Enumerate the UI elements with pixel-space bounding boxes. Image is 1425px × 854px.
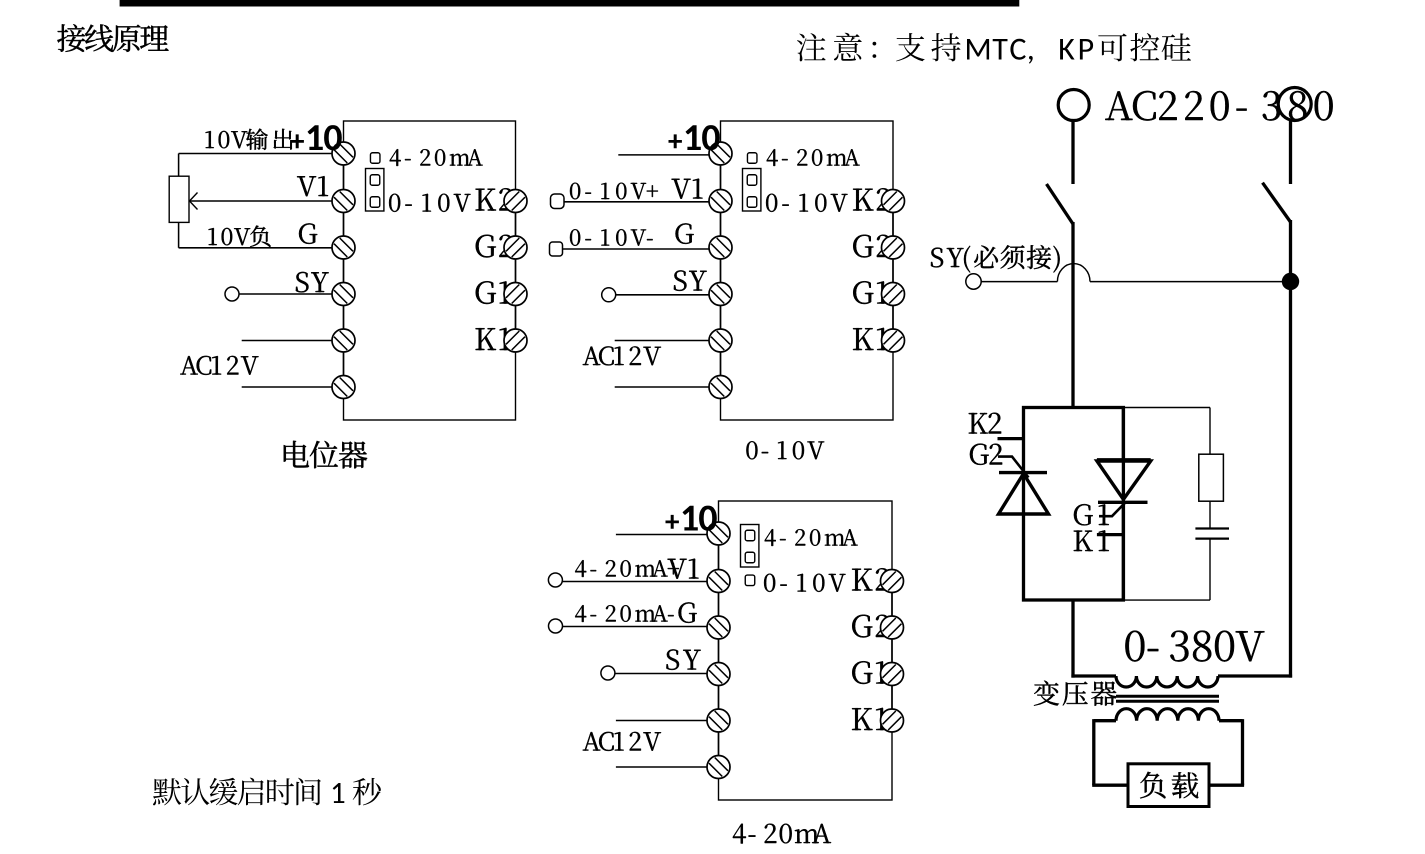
label 4-20mA+ xyxy=(575,560,679,577)
module U2 terminal V1 xyxy=(709,190,732,213)
module U1 (pot input) pin label K1 xyxy=(476,328,511,350)
terminal stub G (U2) xyxy=(550,242,563,256)
terminal stub SY (U1) xyxy=(225,287,239,301)
wire SCR box to transformer xyxy=(1071,600,1074,678)
module U3 (4-20mA input) right edge wire segment G1 xyxy=(891,686,893,710)
wire Q1 cathode to box bottom xyxy=(1122,502,1125,600)
module U3 (4-20mA input) jumper pin 0-10V xyxy=(745,575,755,586)
wire snubber bottom xyxy=(1123,599,1210,601)
module U3 left edge wire segment 1 xyxy=(718,545,720,570)
module U3 (4-20mA input) pin label K2 xyxy=(852,568,889,590)
wire secondary left step xyxy=(1094,719,1116,722)
label +10 (U2) xyxy=(669,125,720,150)
potentiometer RP1 bottom lead xyxy=(178,222,180,247)
module U2 left edge wire segment 2 xyxy=(720,213,722,237)
module U3 left edge wire segment 3 xyxy=(718,639,720,663)
module U3 left edge wire segment 2 xyxy=(718,593,720,617)
thyristor Q1 gate lead xyxy=(1099,502,1126,516)
module U2 (0-10V input) terminal K1 xyxy=(882,329,905,352)
caption 电位器 xyxy=(284,441,368,469)
wire load left xyxy=(1092,784,1128,787)
wire Q1 anode from box top xyxy=(1122,408,1125,460)
label AC220-380 xyxy=(1105,91,1332,121)
label 4-20mA- xyxy=(575,605,673,622)
module U2 (0-10V input) jumper block (0-10V position) xyxy=(743,169,761,212)
module U1 (pot input) jumper pin 4-20mA xyxy=(370,153,380,164)
wire L2 drop to switch xyxy=(1289,121,1292,185)
module U1 (pot input) label 0-10V xyxy=(389,194,470,212)
wire U3 G xyxy=(563,626,709,628)
wire resistor to capacitor xyxy=(1209,501,1211,528)
module U2 (0-10V input) terminal K2 xyxy=(882,190,905,213)
potentiometer RP1 top lead xyxy=(178,154,180,177)
module U3 (4-20mA input) outline xyxy=(719,501,893,800)
module U1 (pot input) pin label G2 xyxy=(476,235,513,258)
wire L1 drop to switch xyxy=(1071,121,1074,185)
module U3 (4-20mA input) label 0-10V xyxy=(764,574,845,592)
module U1 left edge wire segment 4 xyxy=(343,306,345,330)
thyristor Q2 triangle (conducts up) xyxy=(999,474,1049,514)
label AC12V (U2) xyxy=(583,346,661,365)
wire SY stub to hop xyxy=(981,281,1057,283)
label 0-10V- xyxy=(570,229,653,246)
switch S2 blade xyxy=(1263,183,1291,222)
wire U1 AC12V a xyxy=(242,340,334,342)
module U2 (0-10V input) label 4-20mA xyxy=(767,149,860,166)
module U2 left edge wire segment 3 xyxy=(720,259,722,283)
module U2 (0-10V input) jumper pin lower xyxy=(747,197,757,208)
wire U1 V1 (wiper) xyxy=(190,200,334,202)
wire U3 SY xyxy=(615,673,709,675)
module U3 (4-20mA input) label 4-20mA xyxy=(765,529,858,546)
module U1 terminal G xyxy=(332,236,355,259)
capacitor C1 bottom plate xyxy=(1195,537,1229,539)
terminal stub V1 (U2) xyxy=(551,194,565,209)
module U2 (0-10V input) label 0-10V xyxy=(766,194,847,212)
switch S1 blade xyxy=(1047,184,1074,224)
module U2 terminal AC12Va xyxy=(709,329,732,352)
junction dot on L2 xyxy=(1282,273,1298,289)
module U1 (pot input) right edge wire segment K2 xyxy=(515,213,517,237)
label SY (U3) xyxy=(666,649,700,670)
module U3 terminal SY xyxy=(707,663,730,686)
pin label K1 (SCR) xyxy=(1074,530,1109,551)
wire L1 switch to SCR box xyxy=(1071,222,1074,408)
module U3 (4-20mA input) jumper pin upper xyxy=(745,530,755,541)
wire U1 SY xyxy=(239,293,334,295)
module U3 (4-20mA input) pin label G1 xyxy=(852,661,887,684)
module U3 (4-20mA input) jumper pin mid xyxy=(745,552,755,563)
label G (U1) xyxy=(299,223,317,244)
module U1 (pot input) terminal G2 xyxy=(504,236,527,259)
label 变压器 xyxy=(1034,681,1117,706)
note 默认缓启时间 1 秒 xyxy=(153,778,381,806)
pin label K2 (SCR) xyxy=(969,413,1001,434)
thyristor Q1 triangle (conducts down) xyxy=(1097,461,1151,499)
SCR module box xyxy=(1024,408,1124,601)
AC source terminal L2 xyxy=(1278,88,1311,121)
module U1 (pot input) terminal K1 xyxy=(504,329,527,352)
module U3 left edge wire segment 5 xyxy=(718,732,720,756)
label 负载 xyxy=(1140,772,1198,799)
module U2 (0-10V input) outline xyxy=(721,121,894,420)
module U1 left edge wire segment 5 xyxy=(343,352,345,376)
caption 0-10V xyxy=(746,441,824,459)
wire secondary right step xyxy=(1219,719,1243,722)
terminal stub SY (U2) xyxy=(602,288,616,302)
wire U2 AC12V a xyxy=(615,340,711,342)
label 10V负 cjk xyxy=(250,226,271,247)
module U1 (pot input) outline xyxy=(344,121,516,420)
label SY (U2) xyxy=(674,270,707,291)
module U3 terminal G xyxy=(707,616,730,639)
label AC12V (U1) xyxy=(180,356,258,375)
module U2 (0-10V input) terminal G1 xyxy=(882,283,905,306)
label V1 (U1) xyxy=(297,176,328,196)
module U3 (4-20mA input) terminal K2 xyxy=(881,570,904,593)
label SY (U1) xyxy=(296,272,329,293)
module U1 terminal V1 xyxy=(332,190,355,213)
label +10 (U3) xyxy=(666,506,717,531)
module U1 (pot input) right edge wire segment G1 xyxy=(515,306,517,330)
resistor R1 body xyxy=(1199,454,1224,501)
module U2 (0-10V input) pin label K2 xyxy=(853,188,890,210)
terminal stub SY (power) xyxy=(966,274,981,289)
module U3 (4-20mA input) pin label K1 xyxy=(852,708,887,730)
wire U2 SY xyxy=(616,294,711,296)
note 注意：支持 MTC，KP 可控硅 xyxy=(797,33,1191,64)
wire U1 AC12V b xyxy=(242,386,334,388)
terminal stub G (U3) xyxy=(549,619,563,633)
module U2 (0-10V input) pin label K1 xyxy=(853,328,888,350)
label G (U3) xyxy=(679,602,697,623)
label 10V输出 xyxy=(206,131,248,148)
thyristor Q2 gate lead xyxy=(998,457,1029,478)
wire U1 +10 output xyxy=(179,153,334,155)
module U1 (pot input) jumper pin lower xyxy=(370,197,380,208)
module U2 terminal +10 xyxy=(709,142,732,165)
label SY(必须接) xyxy=(931,245,1060,273)
wire U3 +10 xyxy=(616,534,709,536)
wire U2 +10 xyxy=(618,154,710,156)
module U1 (pot input) jumper block (0-10V position) xyxy=(366,169,384,212)
module U1 (pot input) right edge wire segment G2 xyxy=(515,259,517,283)
wire snubber top xyxy=(1123,407,1210,409)
module U2 (0-10V input) pin label G1 xyxy=(853,281,888,304)
module U1 terminal +10 xyxy=(332,142,355,165)
module U1 (pot input) terminal G1 xyxy=(504,283,527,306)
module U2 (0-10V input) terminal G2 xyxy=(882,236,905,259)
K2 stub line xyxy=(998,437,1024,440)
terminal stub V1 (U3) xyxy=(548,573,562,587)
potentiometer RP1 body xyxy=(169,176,189,222)
module U2 terminal AC12Vb xyxy=(709,376,732,399)
module U2 terminal SY xyxy=(709,283,732,306)
thyristor Q1 anode bar xyxy=(1097,458,1151,461)
wire U2 G xyxy=(563,248,711,250)
module U3 terminal AC12Va xyxy=(707,709,730,732)
wire U2 V1 xyxy=(564,201,711,203)
wire transformer primary left xyxy=(1071,674,1116,677)
module U3 (4-20mA input) terminal G2 xyxy=(881,616,904,639)
capacitor C1 top plate xyxy=(1195,527,1229,529)
transformer TR1 primary winding xyxy=(1116,676,1218,687)
module U2 (0-10V input) jumper pin upper xyxy=(747,175,757,186)
pin label G2 (SCR) xyxy=(970,444,1002,465)
arrowhead on V1 wiper wire xyxy=(190,193,198,210)
title 接线原理 xyxy=(57,24,168,52)
module U3 (4-20mA input) right edge wire segment K2 xyxy=(891,593,893,617)
label AC12V (U3) xyxy=(583,732,661,751)
module U1 (pot input) label 4-20mA xyxy=(390,149,483,166)
wire U2 AC12V b xyxy=(615,386,711,388)
label 0-10V+ xyxy=(570,183,658,200)
module U1 terminal AC12Va xyxy=(332,329,355,352)
module U1 left edge wire segment 3 xyxy=(343,259,345,283)
module U2 (0-10V input) jumper pin 4-20mA xyxy=(747,153,757,164)
transformer TR1 core line 1 xyxy=(1116,695,1219,698)
label G (U2) xyxy=(676,223,694,244)
wire snubber drop to resistor xyxy=(1209,408,1211,455)
wire L2 down to transformer xyxy=(1289,220,1292,678)
wire transformer primary right xyxy=(1218,674,1292,677)
module U2 left edge wire segment 4 xyxy=(720,306,722,330)
wire U3 V1 xyxy=(562,581,708,583)
module U3 left edge wire segment 4 xyxy=(718,686,720,710)
module U1 terminal SY xyxy=(332,283,355,306)
wire SY hop to L2 junction xyxy=(1090,281,1291,283)
label +10 (U1) xyxy=(291,125,342,150)
module U2 left edge wire segment 1 xyxy=(720,165,722,190)
module U1 (pot input) terminal K2 xyxy=(504,190,527,213)
thyristor Q1 cathode bar xyxy=(1098,501,1148,504)
label 0-380V xyxy=(1125,631,1264,662)
wire secondary left drop xyxy=(1092,719,1095,785)
wire U3 AC12V b xyxy=(616,766,709,768)
module U2 (0-10V input) right edge wire segment G1 xyxy=(892,306,894,330)
terminal stub SY (U3) xyxy=(601,666,615,680)
wire capacitor down xyxy=(1209,539,1211,601)
module U1 terminal AC12Vb xyxy=(332,376,355,399)
wire secondary right drop xyxy=(1241,719,1244,785)
module U3 terminal +10 xyxy=(707,522,730,545)
label 10V负 xyxy=(209,228,251,245)
module U3 (4-20mA input) jumper block (4-20mA position) xyxy=(741,525,759,568)
module U2 (0-10V input) right edge wire segment K2 xyxy=(892,213,894,237)
module U1 (pot input) pin label G1 xyxy=(476,281,511,304)
transformer TR1 secondary winding xyxy=(1116,709,1219,721)
module U3 terminal V1 xyxy=(707,570,730,593)
module U3 (4-20mA input) terminal K1 xyxy=(881,709,904,732)
module U1 (pot input) jumper pin upper xyxy=(370,175,380,186)
module U2 (0-10V input) pin label G2 xyxy=(853,235,890,258)
module U1 left edge wire segment 1 xyxy=(343,165,345,190)
top horizontal rule xyxy=(120,0,1020,7)
module U2 terminal G xyxy=(709,236,732,259)
K1 stub line xyxy=(1097,533,1124,536)
pin label G1 (SCR) xyxy=(1074,504,1109,525)
module U2 left edge wire segment 5 xyxy=(720,352,722,376)
wire SY hop over L1 conductor xyxy=(1057,264,1090,282)
module U3 (4-20mA input) terminal G1 xyxy=(881,663,904,686)
thyristor Q2 cathode bar xyxy=(999,471,1047,474)
module U2 (0-10V input) right edge wire segment G2 xyxy=(892,259,894,283)
caption 4-20mA xyxy=(733,824,831,844)
module U3 (4-20mA input) pin label G2 xyxy=(852,615,889,638)
transformer TR1 core line 2 xyxy=(1116,700,1219,703)
AC source terminal L1 xyxy=(1058,90,1089,121)
wire U1 G return xyxy=(179,247,334,249)
label V1 (U3) xyxy=(668,559,699,579)
wire load right xyxy=(1209,784,1244,787)
wire U3 AC12V a xyxy=(616,720,709,722)
module U1 (pot input) pin label K2 xyxy=(476,188,513,210)
module U3 (4-20mA input) right edge wire segment G2 xyxy=(891,639,893,663)
load box 负载 xyxy=(1128,764,1209,807)
label 10V输出 cjk xyxy=(246,129,293,150)
module U1 left edge wire segment 2 xyxy=(343,213,345,237)
label V1 (U2) xyxy=(672,179,703,199)
module U3 terminal AC12Vb xyxy=(707,756,730,779)
